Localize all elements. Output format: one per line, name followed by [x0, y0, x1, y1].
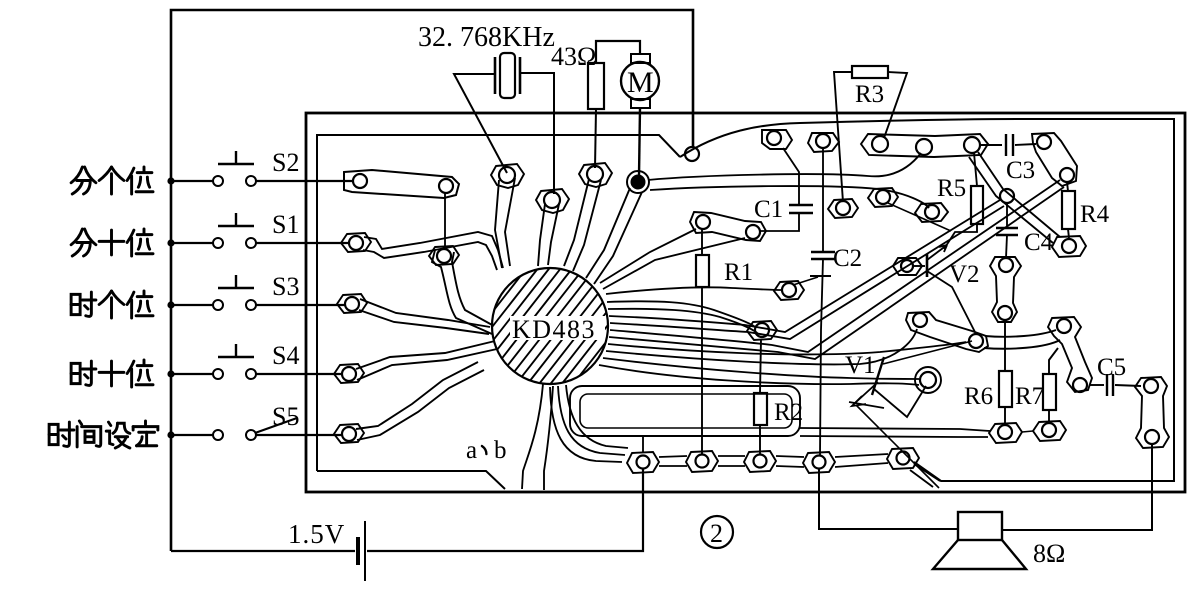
wire wavy W2	[648, 153, 921, 180]
wire bundle trace 6 from chip	[610, 180, 1060, 352]
svg-text:C3: C3	[1006, 157, 1035, 184]
pad 823,141	[808, 133, 839, 152]
node junction dot	[167, 431, 174, 438]
wire 43ohm bottom to pad	[595, 109, 596, 168]
pads bar 880-924-972	[861, 134, 988, 157]
wire crystal right down to pad	[520, 73, 554, 194]
svg-text:S4: S4	[272, 341, 299, 370]
wire pad down to speaker	[1002, 444, 1152, 530]
wire S2b down to mid pad	[444, 193, 446, 249]
svg-text:R3: R3	[855, 81, 884, 108]
pad crystal trace	[491, 164, 524, 188]
wire bundle trace 1 from chip	[606, 287, 782, 294]
svg-text:S5: S5	[272, 402, 299, 431]
speaker 8ohm	[958, 512, 1002, 540]
PCB inner border trace left/top	[317, 135, 680, 471]
svg-text:a: a	[466, 437, 477, 464]
pad crystal-right	[536, 189, 569, 213]
wire crystal left + diagonal into board	[454, 74, 507, 173]
wire thin diag to R5 bottom	[888, 203, 951, 231]
pad bottom row 819	[803, 452, 835, 473]
pad R4 bottom hex	[1052, 236, 1086, 257]
wire bundle trace 9 from chip	[606, 329, 917, 364]
wire bundle trace 5 from chip	[610, 206, 1004, 339]
battery B1 1.5V	[356, 537, 360, 565]
pad 920,320 blob trace to 976,341	[906, 312, 988, 352]
svg-text:C4: C4	[1024, 229, 1054, 256]
wire 43ohm top to motor	[596, 41, 640, 63]
PCB inner border trace wavy top-right + right + bottom	[680, 119, 1174, 481]
curled traces chip-bottom to pad row	[558, 386, 625, 455]
svg-text:KD483: KD483	[512, 315, 596, 344]
wire pad 819 down to speaker	[819, 469, 958, 529]
node junction dot	[167, 239, 174, 246]
svg-text:V1: V1	[845, 352, 876, 379]
wire bundle trace 3 from chip	[608, 309, 758, 334]
pad bottom row 643	[627, 452, 659, 473]
svg-text:1.5V: 1.5V	[288, 519, 345, 549]
PCB inner border bottom-left with notch	[317, 471, 505, 489]
pad 1064,326 blob down to 1080,385	[1048, 317, 1092, 392]
svg-text:43Ω: 43Ω	[551, 42, 596, 71]
wire outer loop top/left	[171, 10, 693, 551]
pad S4 + trace	[334, 364, 364, 383]
wire bundle trace 4 from chip	[609, 200, 1000, 332]
capacitor C4	[1006, 203, 1008, 228]
node junction dot	[167, 370, 174, 377]
switch S3	[171, 304, 213, 306]
pad S5 + trace	[334, 424, 364, 443]
label S2 row	[71, 167, 96, 194]
svg-text:C2: C2	[833, 245, 862, 272]
svg-text:C1: C1	[754, 196, 783, 223]
pad 1044,142 blob to 1067,175	[1032, 133, 1077, 186]
label S3 row	[71, 292, 96, 316]
wire motor bottom to pad	[639, 108, 640, 176]
figure number 2	[701, 516, 733, 548]
wire bundle trace 8 from chip	[608, 342, 966, 354]
wire bottom battery rail	[171, 469, 643, 551]
switch S4	[171, 373, 213, 375]
label S5 row	[49, 422, 74, 446]
svg-text:R4: R4	[1080, 201, 1110, 228]
pad S2a with trace to S2b	[344, 170, 459, 198]
wire bundle trace 7 from chip	[609, 187, 1064, 359]
label S1 row	[71, 229, 96, 256]
pad 789,290	[774, 281, 804, 300]
trace b	[544, 386, 553, 490]
node pad below top-right corner	[685, 147, 699, 161]
switch S5	[171, 434, 213, 436]
wire bundle trace 2 from chip	[607, 301, 755, 327]
thick trace 976 to 1064	[985, 330, 1056, 337]
pad mid 444,256 + trace to chip	[429, 246, 459, 265]
label S4 row	[71, 361, 96, 385]
svg-text:M: M	[627, 66, 654, 99]
pad 843,208	[828, 199, 858, 218]
svg-text:8Ω: 8Ω	[1033, 539, 1065, 568]
svg-text:32. 768KHz: 32. 768KHz	[418, 22, 555, 53]
svg-text:b: b	[494, 437, 507, 464]
resistor R3	[852, 66, 888, 78]
pad 932,212	[915, 203, 948, 222]
wire bundle trace 11 from chip	[599, 365, 919, 385]
pads right column 1151	[1135, 377, 1169, 448]
thick trace slot to R6 pad	[800, 428, 990, 431]
trace slot outline	[570, 386, 800, 436]
pads 703/753 pair	[690, 212, 766, 241]
pad bottom row 760	[744, 451, 776, 472]
node junction dot	[167, 301, 174, 308]
PCB board outline	[306, 113, 1185, 492]
svg-text:R5: R5	[937, 175, 966, 202]
wire V1 diag to bottom	[856, 405, 939, 488]
resistor R4	[1062, 191, 1075, 229]
pads R6/R7 bottom hex	[989, 423, 1022, 443]
svg-text:R2: R2	[774, 399, 803, 426]
trace a	[522, 384, 543, 489]
pad S1 + trace	[341, 233, 371, 252]
resistor R7	[1043, 374, 1056, 410]
trace hexpad diag to border	[910, 464, 940, 487]
pad 883,197	[868, 188, 898, 207]
wire bundle trace 10 from chip	[603, 358, 919, 379]
svg-text:R1: R1	[724, 259, 753, 286]
wire pad 643 up to slot	[642, 437, 644, 453]
pad 43ohm	[579, 163, 612, 187]
pad bottom row 903	[887, 448, 919, 469]
svg-text:R6: R6	[964, 383, 993, 410]
motor M	[621, 62, 659, 100]
pad 774,138	[762, 130, 792, 149]
svg-text:V2: V2	[949, 261, 980, 288]
svg-text:C5: C5	[1097, 354, 1126, 381]
svg-text:S2: S2	[272, 148, 299, 177]
resistor R1	[696, 255, 709, 287]
svg-text:S1: S1	[272, 210, 299, 239]
wire pad789 to C2 branch	[810, 275, 831, 277]
op-chip U1 KD483 hatched	[492, 268, 608, 384]
pad V1 928,380 double ring	[920, 372, 936, 388]
transistor V2	[893, 258, 922, 275]
pad bottom row 702	[686, 451, 718, 472]
wire chip to pads 703/753	[600, 229, 696, 283]
pad S3 + trace	[337, 294, 367, 313]
trace connecting bottom pads	[659, 454, 888, 467]
node junction dot	[167, 177, 174, 184]
pad 762,332 + resistor R2	[747, 321, 777, 340]
capacitor C3	[980, 144, 1002, 146]
pad 1007,196	[1000, 189, 1014, 203]
switch S2	[171, 180, 213, 182]
svg-text:S3: S3	[272, 272, 299, 301]
resistor R6	[999, 371, 1012, 407]
pad 1005,264 blob down to 1005,313	[990, 257, 1021, 322]
svg-text:R7: R7	[1015, 383, 1044, 410]
switch S1	[171, 242, 213, 244]
resistor 43ohm	[588, 63, 604, 109]
svg-text:2: 2	[710, 519, 723, 548]
crystal Y1	[500, 53, 515, 98]
thick diag trace 972-1007-1069	[978, 152, 1060, 237]
pad motor (filled)	[631, 175, 646, 190]
resistor R5	[971, 186, 983, 224]
